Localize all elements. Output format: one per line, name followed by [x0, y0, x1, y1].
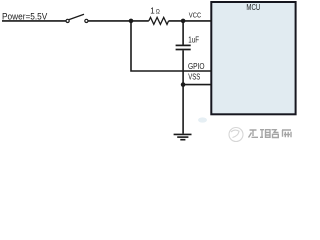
svg-text:Power=5.5V: Power=5.5V [2, 11, 47, 21]
svg-text:1: 1 [150, 7, 155, 16]
svg-text:GPIO: GPIO [188, 62, 205, 71]
svg-text:VSS: VSS [188, 72, 200, 81]
svg-text:Ω: Ω [156, 9, 160, 16]
svg-text:MCU: MCU [246, 3, 260, 12]
svg-text:1uF: 1uF [188, 35, 199, 44]
svg-text:VCC: VCC [189, 11, 202, 20]
